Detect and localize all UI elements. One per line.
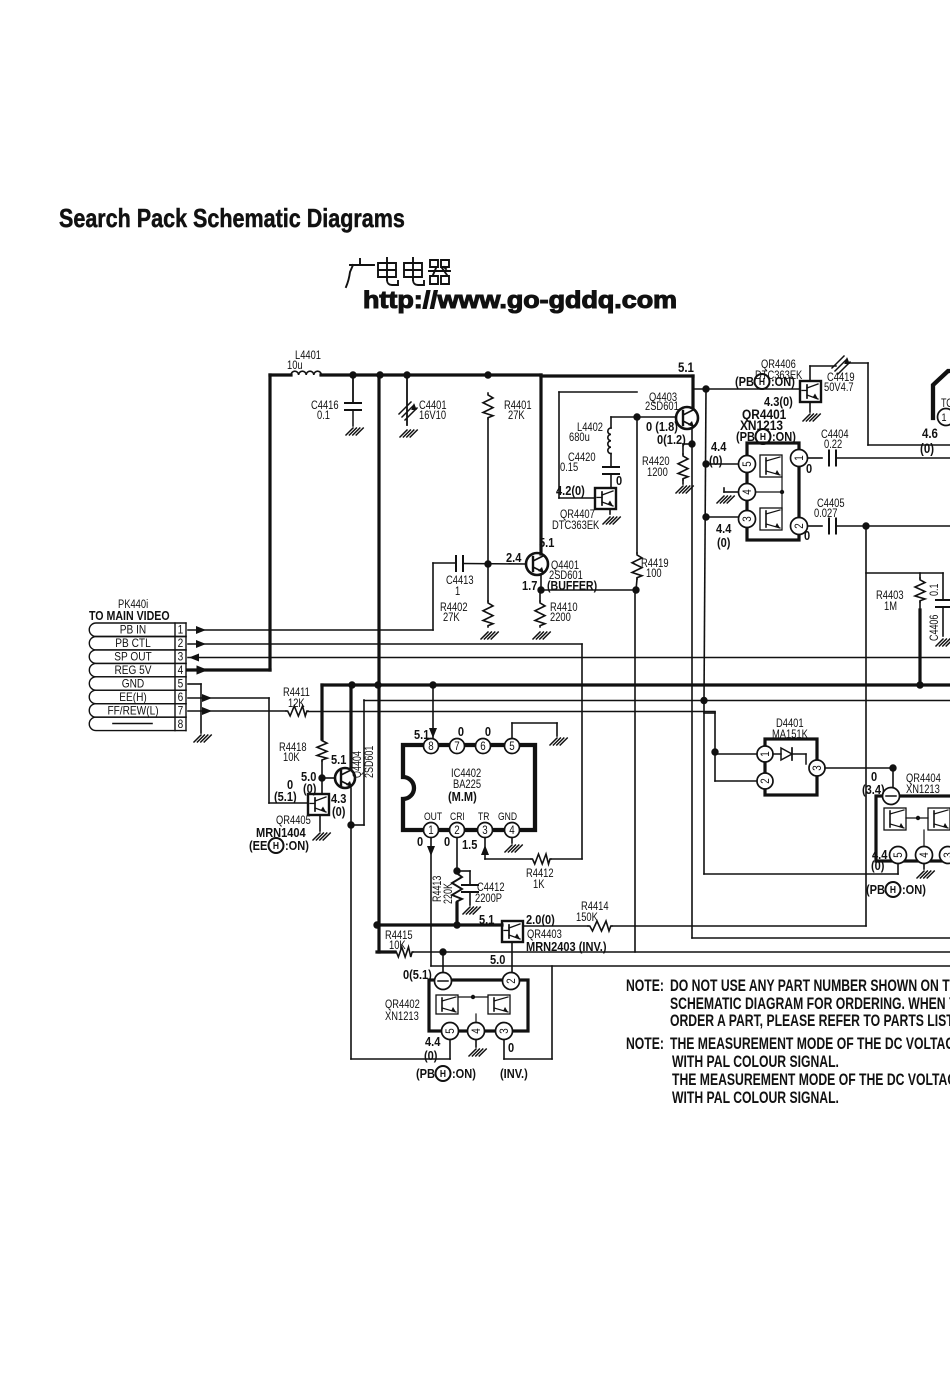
svg-text:WITH PAL COLOUR SIGNAL.: WITH PAL COLOUR SIGNAL.	[672, 1053, 839, 1071]
svg-text:0: 0	[804, 528, 810, 543]
svg-text:7: 7	[454, 740, 459, 753]
svg-text:ORDER A PART, PLEASE REFER TO: ORDER A PART, PLEASE REFER TO PARTS LIST…	[670, 1012, 950, 1030]
svg-text:4.4: 4.4	[716, 521, 732, 536]
svg-text:0: 0	[444, 834, 450, 849]
svg-text:(0): (0)	[920, 441, 934, 456]
svg-text:4: 4	[918, 852, 931, 857]
svg-text::ON): :ON)	[771, 374, 795, 389]
svg-text:1: 1	[941, 412, 946, 424]
svg-text:MA151K: MA151K	[772, 728, 809, 741]
svg-text:10K: 10K	[389, 939, 406, 952]
svg-text:0.1: 0.1	[929, 583, 941, 596]
svg-text:5.1: 5.1	[539, 535, 555, 550]
svg-text:1K: 1K	[533, 878, 545, 891]
svg-text:1M: 1M	[884, 600, 897, 613]
svg-text:DTC363EK: DTC363EK	[552, 519, 600, 532]
svg-text:2.0(0): 2.0(0)	[526, 912, 555, 927]
svg-text:TO MAIN VIDEO: TO MAIN VIDEO	[89, 609, 170, 623]
svg-text:XN1213: XN1213	[906, 783, 940, 796]
svg-text:3: 3	[178, 651, 184, 664]
svg-text:27K: 27K	[508, 409, 525, 422]
svg-text:2: 2	[454, 824, 459, 837]
svg-text:5.1: 5.1	[331, 752, 347, 767]
svg-text:(0): (0)	[871, 858, 884, 873]
svg-text:100: 100	[646, 567, 662, 580]
svg-text:THE MEASUREMENT MODE OF THE DC: THE MEASUREMENT MODE OF THE DC VOLTAGES …	[672, 1071, 950, 1089]
svg-text:2SD601: 2SD601	[364, 745, 376, 778]
svg-text:NOTE:: NOTE:	[626, 977, 664, 995]
svg-text:WITH PAL COLOUR SIGNAL.: WITH PAL COLOUR SIGNAL.	[672, 1089, 839, 1107]
svg-text:0: 0	[508, 1040, 514, 1055]
svg-text:Q4404: Q4404	[352, 751, 364, 778]
svg-text:0.027: 0.027	[814, 507, 837, 520]
svg-text:2: 2	[759, 778, 772, 783]
svg-text:0.1: 0.1	[317, 409, 330, 422]
svg-text:(PB: (PB	[866, 882, 885, 897]
svg-text:(PB: (PB	[416, 1066, 435, 1081]
svg-text:(0): (0)	[424, 1048, 437, 1063]
svg-text:12K: 12K	[288, 697, 305, 710]
svg-text:0.15: 0.15	[560, 461, 578, 474]
svg-text:(BUFFER): (BUFFER)	[547, 579, 597, 593]
svg-text:H: H	[440, 1069, 446, 1080]
svg-text:5: 5	[444, 1028, 457, 1033]
svg-text:2SD601: 2SD601	[645, 400, 679, 413]
svg-text:4: 4	[509, 824, 514, 837]
svg-text:4: 4	[470, 1028, 483, 1033]
svg-text:1: 1	[793, 455, 806, 460]
svg-text:OUT: OUT	[424, 811, 442, 823]
svg-text:4.2(0): 4.2(0)	[556, 483, 585, 498]
svg-text:680u: 680u	[569, 431, 590, 444]
svg-text:EE(H): EE(H)	[119, 691, 147, 704]
svg-text:4: 4	[178, 664, 184, 677]
svg-text:6: 6	[480, 740, 485, 753]
svg-text:16V10: 16V10	[419, 409, 446, 422]
svg-text:5: 5	[509, 740, 514, 753]
svg-text:5.0: 5.0	[490, 952, 506, 967]
svg-text:5.1: 5.1	[678, 360, 694, 375]
svg-text:THE MEASUREMENT MODE OF THE DC: THE MEASUREMENT MODE OF THE DC VOLTAGES …	[670, 1035, 950, 1053]
svg-text:(0): (0)	[709, 453, 722, 468]
svg-text:REG 5V: REG 5V	[114, 664, 152, 677]
svg-text:2200: 2200	[550, 611, 571, 624]
svg-text:H: H	[890, 885, 896, 896]
svg-text:(PB: (PB	[735, 374, 754, 389]
svg-text:8: 8	[178, 718, 184, 731]
svg-text:220K: 220K	[443, 883, 455, 904]
svg-text:4.6: 4.6	[922, 426, 938, 441]
svg-text:FF/REW(L): FF/REW(L)	[107, 705, 158, 718]
svg-text:5: 5	[178, 678, 184, 691]
svg-text::ON): :ON)	[772, 429, 796, 444]
svg-text:0: 0	[616, 473, 622, 488]
svg-text:10K: 10K	[283, 751, 300, 764]
svg-text:4.4: 4.4	[711, 439, 727, 454]
svg-text:XN1213: XN1213	[385, 1010, 419, 1023]
svg-text:1.5: 1.5	[462, 837, 478, 852]
svg-text:2: 2	[178, 637, 184, 650]
svg-text:0: 0	[417, 834, 423, 849]
svg-text:3: 3	[482, 824, 487, 837]
svg-text:GND: GND	[498, 811, 517, 823]
svg-text:C4406: C4406	[929, 614, 941, 641]
svg-text:1: 1	[455, 585, 460, 598]
svg-text:2: 2	[505, 978, 518, 983]
svg-text:(0): (0)	[332, 804, 345, 819]
svg-text:H: H	[273, 841, 279, 852]
svg-text::ON): :ON)	[902, 882, 926, 897]
svg-text:TR: TR	[478, 811, 489, 823]
svg-text:(M.M): (M.M)	[448, 789, 477, 804]
svg-text:(0): (0)	[303, 781, 316, 796]
svg-text:(3.4): (3.4)	[862, 782, 885, 797]
svg-text:10u: 10u	[287, 359, 303, 372]
svg-text:3: 3	[741, 516, 754, 521]
svg-text:3: 3	[811, 765, 824, 770]
svg-text:PB CTL: PB CTL	[115, 637, 150, 650]
svg-text:4.4: 4.4	[425, 1034, 441, 1049]
svg-text:(PB: (PB	[736, 429, 755, 444]
svg-text:CRI: CRI	[450, 811, 465, 823]
svg-text:PB IN: PB IN	[120, 624, 146, 637]
svg-text:150K: 150K	[576, 911, 599, 924]
svg-text:5.1: 5.1	[479, 912, 495, 927]
svg-text:0(5.1): 0(5.1)	[403, 967, 432, 982]
svg-text:0: 0	[458, 724, 464, 739]
svg-text:3: 3	[942, 852, 950, 857]
svg-text:NOTE:: NOTE:	[626, 1035, 664, 1053]
svg-text:1: 1	[178, 624, 184, 637]
svg-text:TO: TO	[941, 398, 950, 410]
svg-text:(EE: (EE	[249, 838, 267, 853]
svg-text:0.22: 0.22	[824, 438, 842, 451]
svg-text:H: H	[760, 432, 766, 443]
svg-text:GND: GND	[122, 678, 145, 691]
svg-text:5: 5	[741, 461, 754, 466]
svg-text:27K: 27K	[443, 611, 460, 624]
svg-text:1200: 1200	[647, 466, 668, 479]
svg-text:(5.1): (5.1)	[274, 789, 297, 804]
svg-text:3: 3	[498, 1028, 511, 1033]
svg-text:5.1: 5.1	[414, 727, 430, 742]
svg-text:SP OUT: SP OUT	[114, 651, 152, 664]
svg-text:0: 0	[485, 724, 491, 739]
svg-text:4: 4	[741, 489, 754, 494]
svg-text:1: 1	[759, 751, 772, 756]
svg-text:2.4: 2.4	[506, 550, 522, 565]
svg-text:DO NOT USE ANY PART NUMBER SHO: DO NOT USE ANY PART NUMBER SHOWN ON THE	[670, 977, 950, 995]
svg-text:7: 7	[178, 705, 184, 718]
svg-text:2200P: 2200P	[475, 892, 502, 905]
svg-text::ON): :ON)	[452, 1066, 476, 1081]
svg-text:MRN2403 (INV.): MRN2403 (INV.)	[526, 939, 607, 954]
svg-text:6: 6	[178, 691, 184, 704]
svg-text::ON): :ON)	[285, 838, 309, 853]
svg-text:H: H	[759, 377, 765, 388]
svg-text:1.7: 1.7	[522, 578, 538, 593]
svg-text:(0): (0)	[717, 535, 730, 550]
svg-text:5: 5	[892, 852, 905, 857]
svg-text:1: 1	[428, 824, 433, 837]
svg-text:SCHEMATIC DIAGRAM FOR ORDERING: SCHEMATIC DIAGRAM FOR ORDERING. WHEN YOU	[670, 995, 950, 1013]
svg-text:50V4.7: 50V4.7	[824, 381, 854, 394]
svg-text:0: 0	[806, 461, 812, 476]
svg-text:0(1.2): 0(1.2)	[657, 432, 686, 447]
svg-text:(INV.): (INV.)	[500, 1066, 528, 1081]
